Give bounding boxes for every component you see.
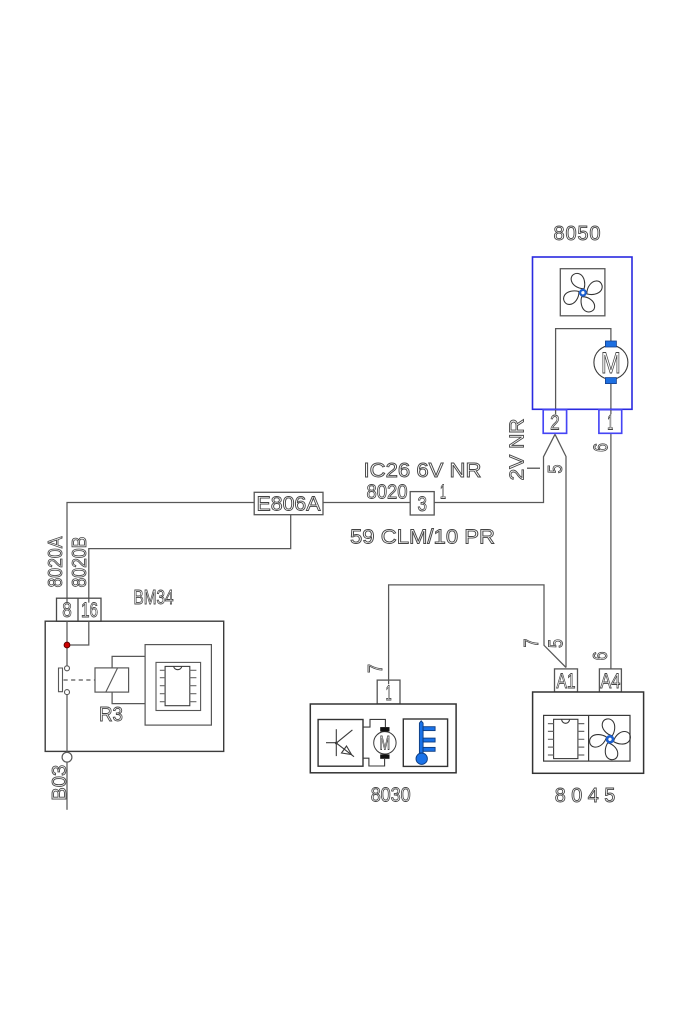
- wire 7 from 8030 pin1 to 8045 A1: [389, 585, 566, 680]
- 8045 IC body: [554, 719, 578, 758]
- ground connector circle at BM34 bottom: [62, 752, 72, 762]
- component 8030 box: [310, 704, 456, 773]
- brushes (black): [380, 727, 389, 731]
- 8050 pin 1 box: [599, 410, 622, 435]
- IC frame: [156, 662, 201, 710]
- svg-text:M: M: [601, 347, 621, 380]
- svg-text:7: 7: [521, 639, 543, 648]
- svg-text:8050: 8050: [554, 223, 601, 245]
- svg-text:59 CLM/10 PR: 59 CLM/10 PR: [350, 527, 495, 549]
- svg-text:2V NR: 2V NR: [507, 419, 529, 481]
- 8045 pin A1 box: [555, 669, 578, 693]
- motor brush tabs (blue): [605, 341, 616, 347]
- svg-text:3: 3: [417, 493, 427, 516]
- leader tick for 2V NR: [527, 467, 540, 469]
- 8050 pin 2 box: [543, 410, 566, 435]
- IC pins: [160, 670, 197, 701]
- fan icon 8050: [560, 270, 605, 315]
- svg-text:1: 1: [440, 482, 446, 504]
- mechanical link (dashed): [64, 679, 96, 681]
- svg-text:8 0 4 5: 8 0 4 5: [555, 785, 616, 807]
- 8030 pin 1 box: [377, 680, 400, 705]
- wire to B03: [66, 762, 68, 810]
- wire 5 branch from 8050 pin2 down to 8045 A1: [555, 434, 566, 667]
- 8030 motor circle: [374, 732, 396, 754]
- svg-text:8020A: 8020A: [45, 536, 67, 588]
- svg-text:16: 16: [81, 599, 98, 622]
- svg-text:5: 5: [546, 639, 568, 648]
- svg-text:7: 7: [365, 664, 387, 673]
- 8030 thermometer icon box: [403, 719, 447, 766]
- svg-text:R3: R3: [99, 704, 123, 726]
- switch blade: [59, 668, 63, 692]
- component 8045 box: [533, 692, 644, 773]
- 8045 inner frame: [544, 715, 630, 761]
- svg-text:1: 1: [607, 412, 613, 435]
- transistor symbol: [326, 729, 354, 757]
- svg-text:B03: B03: [49, 765, 71, 801]
- svg-text:8020B: 8020B: [69, 537, 91, 588]
- svg-text:BM34: BM34: [134, 587, 174, 609]
- junction red dot: [64, 642, 70, 648]
- fan icon box in 8050: [560, 269, 605, 316]
- thermometer (blue): [416, 721, 435, 765]
- connector 8020 pin 3 box: [410, 492, 434, 516]
- connector E806A box: [254, 492, 323, 515]
- svg-text:8030: 8030: [371, 785, 411, 807]
- wire 6 from 8050 pin1 down to 8045 A4: [610, 410, 612, 669]
- wire from E806A bottom to BM34 pin16: [89, 515, 291, 599]
- coil connection wires: [112, 656, 145, 703]
- svg-text:6: 6: [590, 652, 612, 661]
- svg-text:A1: A1: [557, 670, 576, 693]
- wire 5 branch from 8050 pin2 to horizontal bus y=502.5: [67, 434, 555, 598]
- svg-text:E806A: E806A: [257, 494, 322, 516]
- 8030 icon 1 box (transistor): [318, 720, 363, 767]
- relay switch contacts: [65, 666, 70, 671]
- svg-text:8020: 8020: [367, 482, 408, 504]
- BM34 unit box: [45, 621, 224, 751]
- svg-text:M: M: [380, 734, 391, 755]
- svg-text:IC26 6V NR: IC26 6V NR: [364, 460, 482, 482]
- svg-text:2: 2: [550, 412, 560, 435]
- 8050 internal wiring: [556, 329, 611, 434]
- wire below switch to box edge: [66, 695, 68, 754]
- svg-text:A4: A4: [600, 670, 620, 693]
- IC body: [165, 666, 190, 705]
- 8045 fan icon: [587, 717, 632, 762]
- BM34 pin box 8 / 16: [57, 598, 102, 622]
- 8045 IC pins: [548, 724, 584, 755]
- relay coil R3: [95, 668, 129, 692]
- svg-text:6: 6: [590, 443, 612, 452]
- wire stubs inside BM34 and 8030 pin boxes: [67, 598, 389, 684]
- electronic module box in BM34: [145, 645, 211, 726]
- wire stubs inside pin boxes: [556, 410, 611, 414]
- 8045 pin A4 box: [599, 669, 621, 693]
- 8030 motor icon housing: [363, 719, 385, 766]
- component 8050 blue outline: [533, 257, 633, 409]
- svg-text:1: 1: [386, 682, 392, 705]
- motor M in 8050: [594, 345, 628, 379]
- svg-text:5: 5: [545, 465, 567, 474]
- BM34 internal wires: pin8 down + pin16 jog to junction: [67, 621, 89, 665]
